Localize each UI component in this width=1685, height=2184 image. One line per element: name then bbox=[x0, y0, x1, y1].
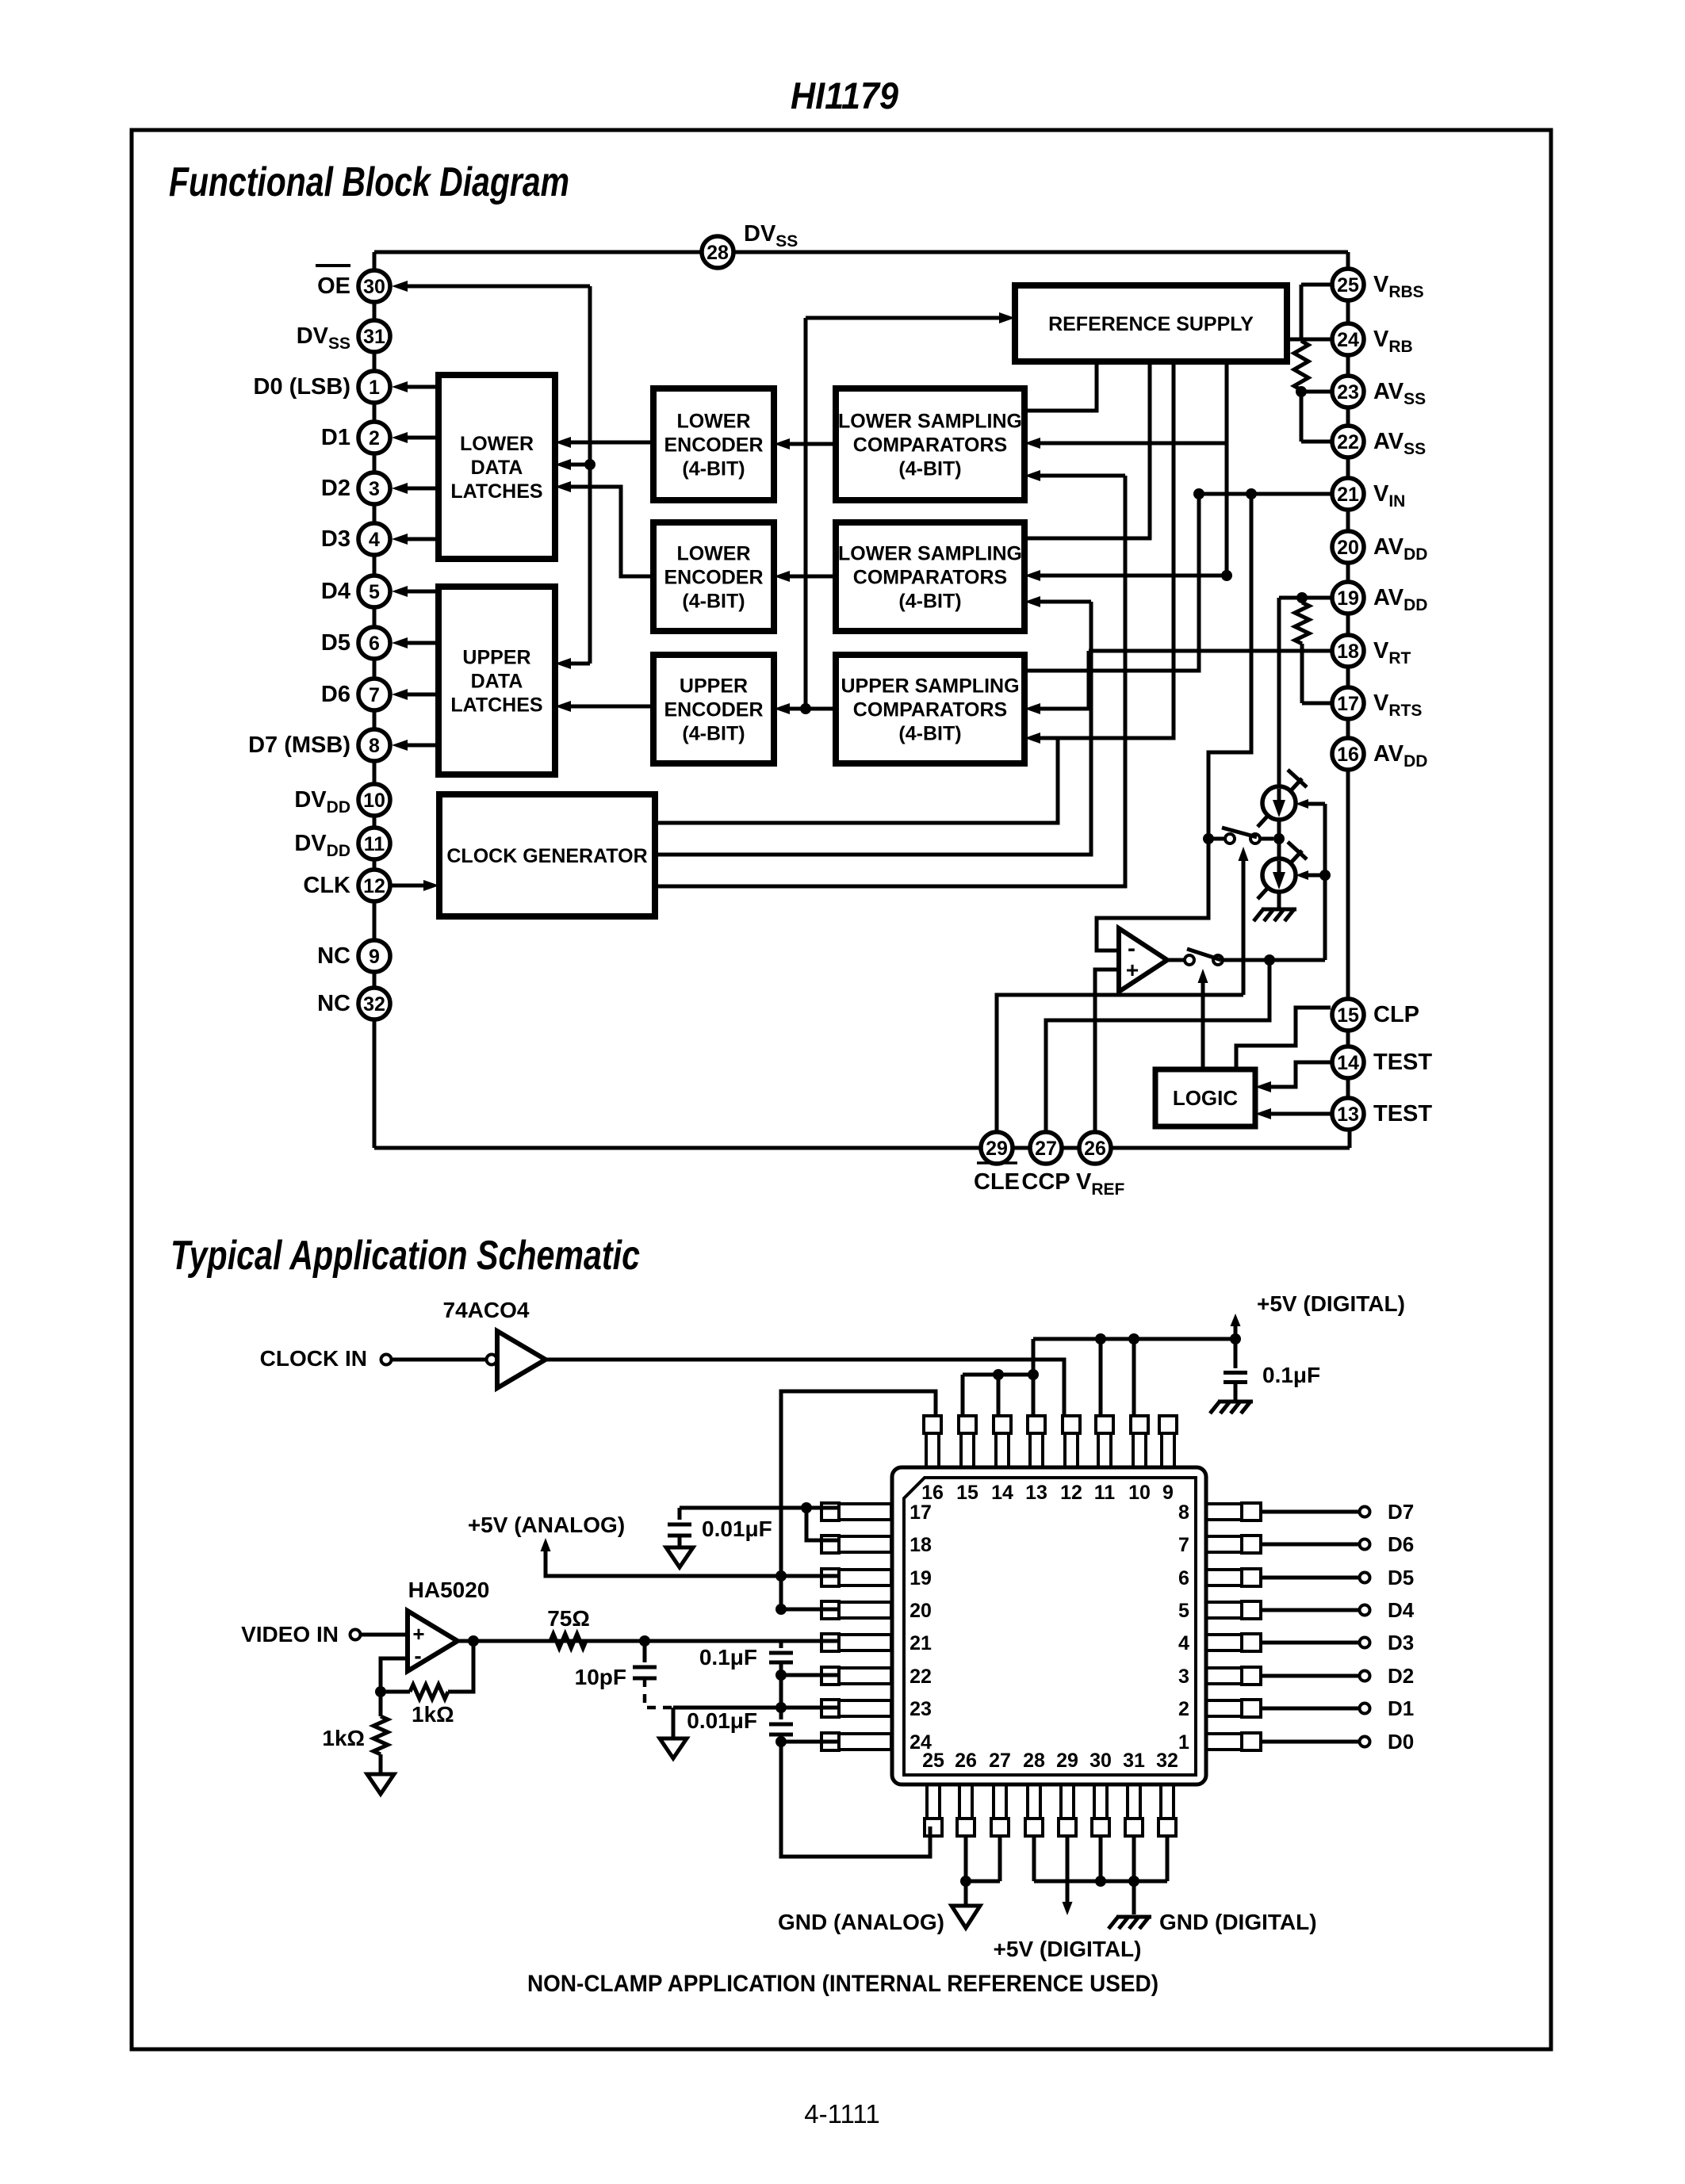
svg-text:17: 17 bbox=[910, 1501, 932, 1524]
svg-text:27: 27 bbox=[1035, 1138, 1057, 1160]
svg-text:27: 27 bbox=[989, 1750, 1011, 1772]
svg-text:20: 20 bbox=[910, 1600, 932, 1622]
svg-text:HA5020: HA5020 bbox=[408, 1578, 490, 1602]
svg-text:LOGIC: LOGIC bbox=[1173, 1086, 1239, 1110]
svg-text:21: 21 bbox=[1337, 484, 1359, 506]
svg-text:CLK: CLK bbox=[303, 873, 350, 898]
svg-text:D6: D6 bbox=[1388, 1532, 1414, 1556]
svg-text:+: + bbox=[412, 1622, 424, 1646]
svg-text:LOWER: LOWER bbox=[460, 433, 534, 455]
svg-text:28: 28 bbox=[1023, 1750, 1045, 1772]
svg-text:15: 15 bbox=[956, 1482, 978, 1504]
svg-text:D6: D6 bbox=[321, 682, 350, 707]
svg-text:13: 13 bbox=[1337, 1103, 1359, 1126]
svg-text:0.1μF: 0.1μF bbox=[1262, 1363, 1320, 1387]
svg-text:D7: D7 bbox=[1388, 1500, 1414, 1524]
svg-text:Typical Application Schematic: Typical Application Schematic bbox=[170, 1233, 640, 1279]
svg-text:74ACO4: 74ACO4 bbox=[443, 1298, 530, 1322]
svg-text:REFERENCE SUPPLY: REFERENCE SUPPLY bbox=[1048, 313, 1254, 335]
svg-text:0.01μF: 0.01μF bbox=[687, 1708, 757, 1733]
svg-text:D1: D1 bbox=[321, 425, 350, 450]
svg-text:12: 12 bbox=[1060, 1482, 1082, 1504]
svg-text:LOWER SAMPLING: LOWER SAMPLING bbox=[838, 542, 1022, 564]
svg-text:ENCODER: ENCODER bbox=[664, 434, 763, 456]
svg-text:12: 12 bbox=[363, 875, 385, 897]
svg-text:17: 17 bbox=[1337, 693, 1359, 715]
svg-text:LOWER SAMPLING: LOWER SAMPLING bbox=[838, 410, 1022, 432]
svg-text:9: 9 bbox=[369, 946, 380, 968]
svg-text:18: 18 bbox=[1337, 641, 1359, 663]
svg-text:OE: OE bbox=[317, 273, 350, 299]
svg-text:LOWER: LOWER bbox=[676, 542, 750, 564]
svg-text:14: 14 bbox=[991, 1482, 1013, 1504]
svg-text:(4-BIT): (4-BIT) bbox=[682, 457, 745, 480]
svg-text:COMPARATORS: COMPARATORS bbox=[853, 698, 1007, 721]
svg-text:ENCODER: ENCODER bbox=[664, 698, 763, 721]
svg-text:8: 8 bbox=[369, 735, 380, 757]
svg-text:20: 20 bbox=[1337, 537, 1359, 559]
svg-text:DATA: DATA bbox=[471, 670, 523, 692]
svg-text:22: 22 bbox=[1337, 431, 1359, 453]
svg-text:GND (DIGITAL): GND (DIGITAL) bbox=[1159, 1910, 1317, 1934]
svg-text:7: 7 bbox=[1178, 1534, 1189, 1556]
svg-text:22: 22 bbox=[910, 1666, 932, 1688]
svg-text:TEST: TEST bbox=[1373, 1050, 1432, 1075]
svg-text:5: 5 bbox=[1178, 1600, 1189, 1622]
svg-text:2: 2 bbox=[1178, 1698, 1189, 1720]
svg-text:29: 29 bbox=[986, 1138, 1008, 1160]
svg-text:LOWER: LOWER bbox=[676, 410, 750, 432]
svg-text:32: 32 bbox=[1156, 1750, 1178, 1772]
svg-text:TEST: TEST bbox=[1373, 1101, 1432, 1126]
svg-text:UPPER SAMPLING: UPPER SAMPLING bbox=[841, 675, 1019, 697]
svg-text:D0: D0 bbox=[1388, 1730, 1414, 1754]
svg-text:NON-CLAMP APPLICATION (INTERNA: NON-CLAMP APPLICATION (INTERNAL REFERENC… bbox=[527, 1971, 1158, 1997]
svg-text:5: 5 bbox=[369, 581, 380, 603]
svg-text:D3: D3 bbox=[321, 526, 350, 552]
svg-text:31: 31 bbox=[1123, 1750, 1145, 1772]
svg-text:LATCHES: LATCHES bbox=[450, 480, 542, 503]
svg-text:+5V (DIGITAL): +5V (DIGITAL) bbox=[994, 1937, 1142, 1961]
svg-text:D3: D3 bbox=[1388, 1631, 1414, 1654]
svg-text:LATCHES: LATCHES bbox=[450, 694, 542, 716]
svg-text:COMPARATORS: COMPARATORS bbox=[853, 434, 1007, 456]
svg-text:D7 (MSB): D7 (MSB) bbox=[248, 732, 350, 758]
svg-text:UPPER: UPPER bbox=[680, 675, 748, 697]
svg-text:3: 3 bbox=[1178, 1666, 1189, 1688]
svg-text:2: 2 bbox=[369, 427, 380, 449]
svg-text:29: 29 bbox=[1056, 1750, 1078, 1772]
svg-text:10pF: 10pF bbox=[575, 1665, 626, 1689]
svg-text:Functional Block Diagram: Functional Block Diagram bbox=[169, 159, 569, 205]
svg-text:25: 25 bbox=[1337, 274, 1359, 296]
svg-text:+: + bbox=[1126, 958, 1139, 982]
svg-text:4-1111: 4-1111 bbox=[804, 2099, 879, 2129]
svg-text:(4-BIT): (4-BIT) bbox=[682, 722, 745, 744]
svg-text:26: 26 bbox=[1084, 1138, 1106, 1160]
svg-text:NC: NC bbox=[317, 991, 350, 1016]
svg-text:VIDEO IN: VIDEO IN bbox=[241, 1622, 339, 1647]
svg-text:6: 6 bbox=[1178, 1567, 1189, 1589]
svg-text:4: 4 bbox=[369, 529, 380, 551]
svg-text:CCP: CCP bbox=[1021, 1169, 1070, 1195]
svg-text:32: 32 bbox=[363, 993, 385, 1016]
svg-text:NC: NC bbox=[317, 943, 350, 969]
svg-text:D4: D4 bbox=[321, 579, 350, 604]
svg-text:ENCODER: ENCODER bbox=[664, 566, 763, 588]
svg-text:D2: D2 bbox=[1388, 1664, 1414, 1688]
svg-text:18: 18 bbox=[910, 1534, 932, 1556]
svg-text:D5: D5 bbox=[1388, 1566, 1414, 1589]
svg-text:(4-BIT): (4-BIT) bbox=[898, 722, 961, 744]
svg-text:31: 31 bbox=[363, 326, 385, 348]
svg-text:14: 14 bbox=[1337, 1052, 1359, 1074]
svg-text:-: - bbox=[414, 1643, 421, 1668]
svg-text:1kΩ: 1kΩ bbox=[322, 1726, 365, 1750]
svg-text:D0 (LSB): D0 (LSB) bbox=[254, 374, 350, 400]
svg-text:(4-BIT): (4-BIT) bbox=[898, 457, 961, 480]
svg-text:15: 15 bbox=[1337, 1004, 1359, 1027]
svg-text:+5V (DIGITAL): +5V (DIGITAL) bbox=[1257, 1291, 1405, 1316]
svg-text:19: 19 bbox=[1337, 587, 1359, 610]
svg-text:30: 30 bbox=[1090, 1750, 1112, 1772]
svg-text:COMPARATORS: COMPARATORS bbox=[853, 566, 1007, 588]
svg-text:1: 1 bbox=[1178, 1731, 1189, 1754]
svg-text:13: 13 bbox=[1025, 1482, 1047, 1504]
svg-text:11: 11 bbox=[364, 833, 385, 855]
svg-text:0.01μF: 0.01μF bbox=[702, 1517, 772, 1541]
svg-text:23: 23 bbox=[1337, 381, 1359, 404]
svg-text:23: 23 bbox=[910, 1698, 932, 1720]
svg-text:24: 24 bbox=[1337, 329, 1359, 351]
svg-text:D1: D1 bbox=[1388, 1696, 1414, 1720]
svg-text:21: 21 bbox=[910, 1632, 932, 1654]
svg-text:HI1179: HI1179 bbox=[791, 75, 898, 117]
svg-text:3: 3 bbox=[369, 478, 380, 500]
svg-text:30: 30 bbox=[363, 276, 385, 298]
svg-text:0.1μF: 0.1μF bbox=[699, 1645, 757, 1670]
svg-text:6: 6 bbox=[369, 633, 380, 655]
svg-text:7: 7 bbox=[369, 684, 380, 706]
svg-text:75Ω: 75Ω bbox=[547, 1606, 590, 1631]
svg-text:1kΩ: 1kΩ bbox=[412, 1702, 454, 1727]
svg-text:GND (ANALOG): GND (ANALOG) bbox=[778, 1910, 944, 1934]
svg-text:D4: D4 bbox=[1388, 1598, 1415, 1622]
svg-text:26: 26 bbox=[955, 1750, 977, 1772]
svg-text:D2: D2 bbox=[321, 476, 350, 501]
svg-text:8: 8 bbox=[1178, 1501, 1189, 1524]
svg-text:(4-BIT): (4-BIT) bbox=[898, 590, 961, 612]
svg-text:D5: D5 bbox=[321, 630, 350, 656]
svg-text:4: 4 bbox=[1178, 1632, 1189, 1654]
svg-text:CLOCK GENERATOR: CLOCK GENERATOR bbox=[446, 845, 647, 867]
svg-text:CLP: CLP bbox=[1373, 1002, 1419, 1027]
svg-text:UPPER: UPPER bbox=[462, 646, 530, 668]
svg-text:28: 28 bbox=[707, 242, 729, 264]
svg-text:16: 16 bbox=[921, 1482, 944, 1504]
svg-text:10: 10 bbox=[363, 790, 385, 812]
svg-text:1: 1 bbox=[369, 377, 380, 399]
svg-text:19: 19 bbox=[910, 1567, 932, 1589]
svg-text:CLE: CLE bbox=[974, 1169, 1020, 1195]
svg-text:9: 9 bbox=[1162, 1482, 1174, 1504]
svg-text:+5V (ANALOG): +5V (ANALOG) bbox=[468, 1513, 625, 1537]
svg-text:DATA: DATA bbox=[471, 457, 523, 479]
svg-text:16: 16 bbox=[1337, 744, 1359, 766]
svg-text:CLOCK IN: CLOCK IN bbox=[260, 1346, 367, 1371]
svg-text:24: 24 bbox=[910, 1731, 932, 1754]
svg-text:10: 10 bbox=[1128, 1482, 1151, 1504]
svg-text:11: 11 bbox=[1094, 1482, 1116, 1504]
svg-text:(4-BIT): (4-BIT) bbox=[682, 590, 745, 612]
